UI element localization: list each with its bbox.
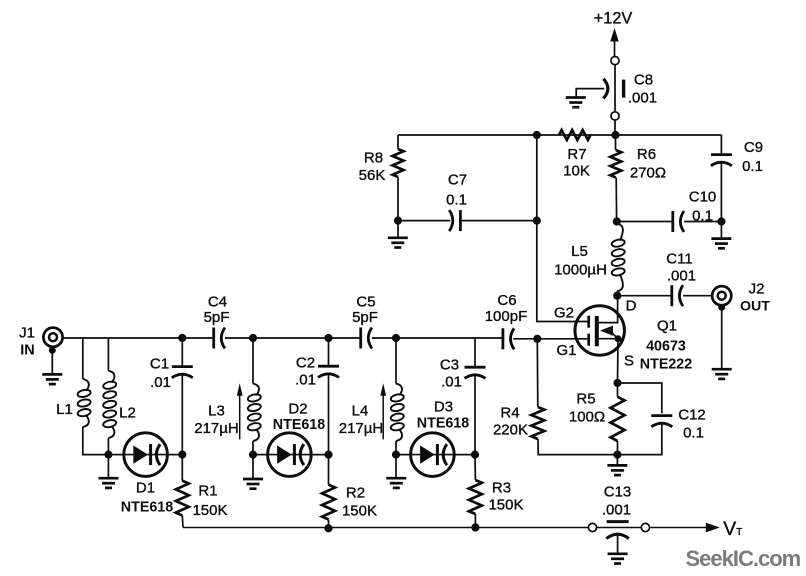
connector J1 xyxy=(43,328,62,347)
svg-text:NTE618: NTE618 xyxy=(273,417,325,433)
svg-text:150K: 150K xyxy=(342,503,377,520)
svg-text:150K: 150K xyxy=(488,497,523,514)
svg-text:R7: R7 xyxy=(567,146,586,163)
wire J2 shell to ground xyxy=(721,307,723,369)
resistor R4 xyxy=(531,407,544,439)
capacitor C7 xyxy=(449,210,460,231)
wire C9 to C10 junction xyxy=(720,163,722,222)
wire source down to R5 node xyxy=(617,339,620,383)
svg-text:270Ω: 270Ω xyxy=(630,164,666,181)
junction R5 / R4 / C12 / ground xyxy=(613,451,621,459)
wire C1 to D1 node xyxy=(181,376,183,455)
junction D1 / C1 / R1 xyxy=(178,451,186,459)
ground at L4 node xyxy=(386,478,406,488)
junction L4 / D3 / ground xyxy=(392,451,400,459)
wire R3 to VT rail xyxy=(474,514,476,528)
capacitor C12 xyxy=(651,416,672,427)
junction trunk / C7 row xyxy=(533,217,541,225)
wire VT rail xyxy=(183,527,588,529)
svg-text:R2: R2 xyxy=(346,485,365,502)
ground at C8 xyxy=(566,98,586,108)
resistor R2 xyxy=(322,485,335,520)
svg-text:C7: C7 xyxy=(448,171,467,188)
junction top rail / trunk xyxy=(533,131,541,139)
wire R8 to C7 xyxy=(398,220,450,222)
svg-text:+12V: +12V xyxy=(594,10,633,28)
node L3 top xyxy=(249,334,257,342)
wire R8 to C7 row xyxy=(397,177,399,221)
wire L2 node to D1 xyxy=(108,454,123,456)
wire rail down to L4 xyxy=(395,338,397,384)
capacitor C9 xyxy=(711,155,732,166)
wire D2 node to R2 xyxy=(328,455,330,485)
svg-text:NTE222: NTE222 xyxy=(640,356,692,372)
svg-text:R1: R1 xyxy=(198,483,217,500)
wire C5 to C6 xyxy=(372,337,502,339)
svg-text:OUT: OUT xyxy=(740,298,770,314)
wire R6 to L5 node xyxy=(615,178,617,222)
svg-text:V: V xyxy=(723,518,736,540)
transistor Q1 dual-gate MOSFET body xyxy=(575,306,624,355)
resistor R5 xyxy=(611,397,625,441)
wire J1 to C4 xyxy=(63,337,213,339)
svg-text:R6: R6 xyxy=(637,146,656,163)
svg-text:J2: J2 xyxy=(749,281,765,298)
svg-text:C5: C5 xyxy=(356,294,375,311)
node C2 top xyxy=(324,334,332,342)
resistor R7 xyxy=(559,130,590,140)
inductor L1 xyxy=(77,379,91,427)
wire top rail down to R8 xyxy=(397,135,399,149)
wire C12 to bottom node xyxy=(617,425,661,455)
svg-text:C12: C12 xyxy=(678,407,706,424)
junction L1 L2 D1 ground xyxy=(104,451,112,459)
svg-text:Q1: Q1 xyxy=(657,317,677,334)
svg-text:.01: .01 xyxy=(441,374,462,391)
svg-text:C9: C9 xyxy=(744,139,763,156)
svg-text:R5: R5 xyxy=(576,391,595,408)
wire top rail R8 to C9 corner xyxy=(398,134,721,136)
wire trunk down and right to gate G2 xyxy=(537,221,588,322)
svg-text:C1: C1 xyxy=(150,356,169,373)
svg-text:R4: R4 xyxy=(500,405,519,422)
wire L2 to bottom node xyxy=(107,438,109,455)
wire D3 to C3 column xyxy=(454,454,475,456)
wire C7 to trunk xyxy=(461,220,537,222)
svg-text:NTE618: NTE618 xyxy=(121,500,173,516)
junction D3 / C3 / R3 xyxy=(471,451,479,459)
junction D2 / C2 / R2 xyxy=(324,451,332,459)
wire Q1 drain lead xyxy=(599,296,618,323)
svg-text:SeekIC.com: SeekIC.com xyxy=(686,546,801,571)
varactor D3 xyxy=(411,433,455,477)
svg-text:217µH: 217µH xyxy=(339,420,384,437)
terminal circle top of C8 xyxy=(611,57,619,65)
svg-text:D2: D2 xyxy=(288,401,307,418)
wire C3 to D3 node xyxy=(474,376,476,455)
wire L3 to D2 node xyxy=(252,441,254,455)
tuning arrow of L4 xyxy=(380,383,386,396)
capacitor C11 xyxy=(672,285,683,306)
inductor L3 xyxy=(247,384,261,441)
tuning arrow of L3 xyxy=(237,383,243,396)
ground at R8 xyxy=(388,238,408,248)
svg-text:C6: C6 xyxy=(497,292,516,309)
wire C6 to G1 xyxy=(513,338,588,340)
svg-text:5pF: 5pF xyxy=(204,309,230,326)
svg-text:J1: J1 xyxy=(19,325,35,342)
wire R1 to VT rail xyxy=(181,516,184,528)
junction source / R5 / C12 xyxy=(613,379,621,387)
wire C8 arc to ground xyxy=(576,88,604,90)
wire R2 to VT rail xyxy=(328,520,330,528)
svg-text:C11: C11 xyxy=(666,251,692,268)
wire G1 node down to R4 xyxy=(536,339,539,407)
junction Q1 source / substrate xyxy=(615,335,622,342)
wire C13 to ground xyxy=(617,535,619,553)
capacitor C2 xyxy=(318,366,339,377)
svg-text:C13: C13 xyxy=(604,484,632,501)
svg-text:R3: R3 xyxy=(492,480,511,497)
node L4 top xyxy=(392,334,400,342)
wire C4 to C5 xyxy=(225,337,360,339)
junction G1 / R4 xyxy=(533,335,541,343)
ground at J1 xyxy=(42,374,62,384)
capacitor C1 xyxy=(172,367,193,378)
svg-text:R8: R8 xyxy=(364,150,383,167)
resistor R8 xyxy=(393,149,404,177)
junction R6 / L5 / C10 row xyxy=(613,217,621,225)
resistor R6 xyxy=(610,150,621,178)
svg-text:C3: C3 xyxy=(440,357,459,374)
wire +12V to C8 feedthrough xyxy=(614,65,616,112)
ground at J2 xyxy=(712,369,732,379)
svg-text:1000µH: 1000µH xyxy=(554,261,607,278)
junction R8 / C7 row / ground xyxy=(394,217,402,225)
svg-text:L3: L3 xyxy=(208,403,225,420)
svg-text:L1: L1 xyxy=(56,401,73,418)
svg-text:NTE618: NTE618 xyxy=(417,416,469,432)
wire VT rail through C13 xyxy=(597,527,642,529)
node C1 top xyxy=(178,334,186,342)
junction R2 / VT rail xyxy=(324,524,332,532)
wire L3 node to D2 xyxy=(253,454,268,456)
ground at C13 xyxy=(608,554,628,564)
junction R3 / VT rail xyxy=(471,523,479,531)
capacitor C10 xyxy=(673,211,684,232)
wire D1 node to R1 xyxy=(181,455,183,481)
terminal circle right of C13 xyxy=(641,523,649,531)
svg-text:L5: L5 xyxy=(571,243,588,260)
svg-text:10K: 10K xyxy=(563,162,590,179)
wire C10 to C9 junction xyxy=(684,221,721,223)
svg-text:.001: .001 xyxy=(667,268,696,285)
wire trunk top rail to C7 row xyxy=(536,135,538,221)
wire L4 to D3 node xyxy=(395,441,397,455)
wire top rail corner down to C9 xyxy=(720,135,722,154)
wire D1 to C1 column xyxy=(167,454,182,456)
ground at L3 node xyxy=(243,479,263,489)
wire rail to C2 xyxy=(328,338,330,366)
wire rail down to L3 xyxy=(252,338,254,384)
svg-text:40673: 40673 xyxy=(646,338,686,354)
svg-text:D1: D1 xyxy=(136,479,155,496)
wire J1 shell to ground xyxy=(51,350,53,374)
svg-text:.001: .001 xyxy=(628,89,657,106)
junction J1 shell xyxy=(49,347,56,354)
resistor R1 xyxy=(176,481,189,516)
svg-text:L2: L2 xyxy=(119,404,136,421)
wire D3 node to R3 xyxy=(474,455,476,480)
wire top rail to R6 xyxy=(615,135,617,150)
ground at L2 node xyxy=(99,478,119,488)
svg-text:C2: C2 xyxy=(296,355,315,372)
svg-text:L4: L4 xyxy=(352,403,369,420)
capacitor C13 feedthrough plates xyxy=(606,522,628,539)
svg-text:150K: 150K xyxy=(192,502,227,519)
svg-text:G1: G1 xyxy=(556,342,576,359)
svg-text:100pF: 100pF xyxy=(485,308,528,325)
svg-text:5pF: 5pF xyxy=(352,309,378,326)
svg-text:S: S xyxy=(624,352,634,369)
Q1 substrate arrow xyxy=(600,326,613,336)
inductor L2 xyxy=(103,371,117,438)
Q1 gate G1 bar xyxy=(587,334,590,346)
power arrow up xyxy=(610,28,618,42)
wire VT rail to arrow xyxy=(650,527,707,529)
wire Q1 source lead xyxy=(599,338,618,340)
wire rail to C1 xyxy=(181,338,183,367)
junction C9 / C10 / ground xyxy=(717,217,725,225)
svg-text:0.1: 0.1 xyxy=(446,191,467,208)
terminal circle bottom of C8 xyxy=(611,112,619,120)
Q1 gate G2 bar xyxy=(587,316,590,328)
svg-text:IN: IN xyxy=(20,342,35,358)
svg-text:D3: D3 xyxy=(434,399,453,416)
terminal circle left of C13 xyxy=(588,523,596,531)
inductor L5 xyxy=(611,224,625,292)
wire R5 top lead xyxy=(617,383,619,397)
svg-text:T: T xyxy=(736,527,742,538)
inductor L4 xyxy=(390,384,404,441)
wire rail to C3 xyxy=(474,338,476,367)
svg-text:0.1: 0.1 xyxy=(742,158,763,175)
wire source node to C12 xyxy=(618,383,662,413)
wire R4 to source ground node xyxy=(538,439,617,455)
resistor R3 xyxy=(469,480,482,514)
capacitor C5 xyxy=(361,328,372,349)
wire rail down to L1 xyxy=(82,338,84,379)
junction J2 shell xyxy=(718,304,725,311)
svg-text:56K: 56K xyxy=(359,167,386,184)
ground at Q1 source network xyxy=(607,465,627,475)
wire R5 to bottom node xyxy=(617,441,619,455)
svg-text:0.1: 0.1 xyxy=(683,425,704,442)
junction drain / L5 / C11 xyxy=(613,292,621,300)
ground at C9 C10 junction xyxy=(711,239,731,249)
svg-text:.01: .01 xyxy=(150,374,171,391)
capacitor C4 xyxy=(214,328,225,349)
wire rail down to L2 xyxy=(107,338,109,371)
capacitor C8 feedthrough plates xyxy=(603,79,623,99)
wire R6 node to C10 xyxy=(617,221,672,223)
Q1 channel bar xyxy=(595,316,599,346)
wire C11 to J2 xyxy=(683,295,712,297)
svg-text:C4: C4 xyxy=(208,294,227,311)
svg-text:D: D xyxy=(626,297,637,314)
svg-text:220K: 220K xyxy=(493,422,528,439)
svg-text:0.1: 0.1 xyxy=(692,207,713,224)
wire C8 to top rail xyxy=(614,120,616,135)
svg-text:G2: G2 xyxy=(554,305,574,322)
junction top rail / +12V column xyxy=(611,131,619,139)
wire D2 to C2 column xyxy=(311,454,329,456)
svg-text:217µH: 217µH xyxy=(194,420,239,437)
wire L5 to drain node xyxy=(616,292,618,296)
svg-text:C10: C10 xyxy=(689,189,717,206)
varactor D1 xyxy=(124,433,168,477)
wire drain node to C11 xyxy=(617,295,671,297)
varactor D2 xyxy=(268,433,312,477)
svg-text:.01: .01 xyxy=(295,372,316,389)
wire L4 node to D3 xyxy=(396,454,411,456)
wire C2 to D2 node xyxy=(328,375,330,455)
svg-text:C8: C8 xyxy=(634,71,653,88)
capacitor C6 xyxy=(503,328,514,349)
capacitor C3 xyxy=(465,367,486,378)
wire L1 to bottom node xyxy=(83,427,109,455)
junction L3 / D2 / ground xyxy=(249,451,257,459)
arrow to VT output xyxy=(706,523,720,533)
connector J2 xyxy=(712,286,731,305)
svg-text:100Ω: 100Ω xyxy=(569,409,605,426)
svg-text:.001: .001 xyxy=(602,502,631,519)
